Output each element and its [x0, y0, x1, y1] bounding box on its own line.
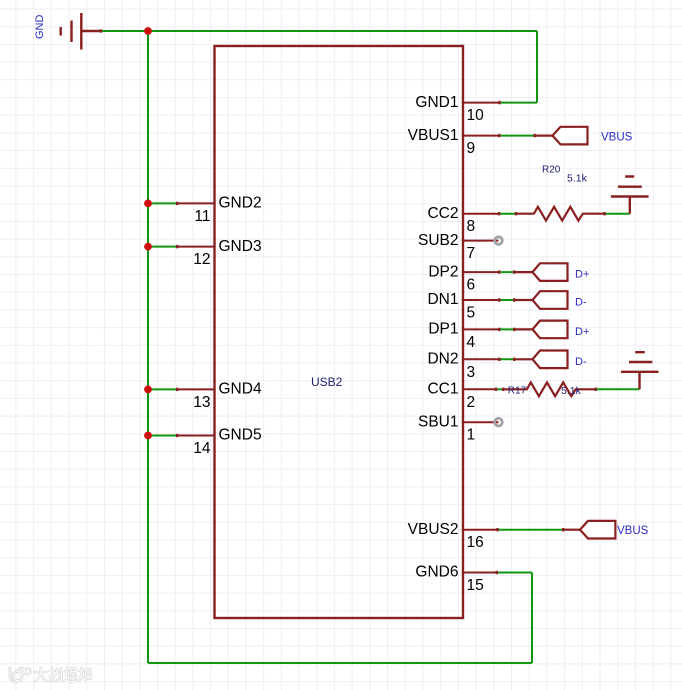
wire top horizontal (GND to corner) — [100, 30, 537, 32]
wire GND5 tap — [148, 435, 178, 437]
svg-text:VBUS: VBUS — [601, 131, 633, 143]
ground (earth, flipped) at R17 — [621, 352, 659, 389]
svg-text:5.1k: 5.1k — [567, 173, 588, 185]
no-connect marker pin 1 — [495, 418, 503, 426]
svg-text:13: 13 — [193, 394, 210, 411]
pin 12 GND3 — [178, 238, 262, 268]
pin 9 VBUS1 — [408, 127, 499, 157]
svg-text:3: 3 — [467, 364, 476, 381]
svg-text:5: 5 — [467, 305, 476, 322]
junction at top wire — [144, 27, 152, 35]
svg-text:GND4: GND4 — [219, 381, 262, 398]
wire CC1 to R17 — [495, 388, 504, 390]
pin 6 DP2 — [428, 263, 498, 293]
resistor R17 5.1k — [504, 382, 595, 397]
svg-text:SBU1: SBU1 — [418, 413, 459, 430]
svg-text:GND: GND — [34, 15, 46, 40]
pin 15 GND6 — [415, 564, 496, 594]
wire VBUS2 — [497, 529, 564, 531]
svg-text:R17: R17 — [508, 386, 527, 397]
wire top-right vertical down to GND1 — [536, 31, 538, 103]
svg-text:1: 1 — [467, 427, 476, 444]
svg-text:11: 11 — [194, 208, 210, 225]
svg-text:GND6: GND6 — [415, 564, 458, 581]
svg-text:5.1k: 5.1k — [561, 385, 582, 397]
junction GND5 — [144, 432, 152, 440]
wire DP1 — [499, 328, 516, 330]
svg-text:10: 10 — [467, 107, 485, 124]
pin 13 GND4 — [178, 381, 262, 411]
wire CC2 to R20 — [498, 213, 516, 215]
pin 7 SUB2 — [418, 232, 499, 262]
svg-text:9: 9 — [467, 140, 476, 157]
wire GND1 pin to corner — [499, 102, 538, 104]
svg-text:D-: D- — [575, 297, 587, 309]
pin 1 SBU1 — [418, 413, 499, 443]
wire bottom horizontal — [148, 662, 532, 664]
wire GND2 tap — [148, 202, 178, 204]
svg-text:SUB2: SUB2 — [418, 232, 459, 249]
svg-text:D+: D+ — [575, 269, 589, 281]
ground (earth, flipped) at R20 — [611, 177, 649, 214]
junction GND4 — [144, 386, 152, 394]
wire R20 to ground — [604, 213, 630, 215]
pin 10 GND1 — [415, 94, 498, 124]
pin 8 CC2 — [427, 205, 498, 235]
wire R17 to ground — [595, 388, 640, 390]
net flag D+ (pin 6) — [515, 263, 589, 281]
pin 14 GND5 — [178, 427, 262, 457]
ground symbol GND (power ground, top-left) — [61, 13, 100, 50]
net flag D- (pin 5) — [515, 291, 587, 309]
net flag VBUS (pin 9) — [536, 127, 633, 145]
svg-text:VBUS1: VBUS1 — [408, 127, 459, 144]
svg-text:GND5: GND5 — [219, 427, 262, 444]
wire left vertical bus — [147, 31, 149, 663]
svg-text:CC1: CC1 — [427, 381, 458, 398]
svg-text:12: 12 — [193, 251, 210, 268]
svg-text:GND3: GND3 — [219, 238, 262, 255]
no-connect marker pin 7 — [495, 237, 503, 245]
svg-text:6: 6 — [467, 276, 476, 293]
resistor R20 5.1k — [517, 165, 604, 221]
junction GND3 — [144, 243, 152, 251]
svg-text:16: 16 — [467, 534, 484, 551]
svg-text:4: 4 — [467, 334, 476, 351]
pin 16 VBUS2 — [408, 521, 497, 551]
svg-text:7: 7 — [467, 245, 476, 262]
svg-text:GND2: GND2 — [219, 195, 262, 212]
junction GND2 — [144, 200, 152, 208]
pin 4 DP1 — [428, 321, 498, 351]
svg-text:D-: D- — [575, 356, 587, 368]
svg-text:DP1: DP1 — [428, 321, 458, 338]
svg-text:GND1: GND1 — [415, 94, 458, 111]
pin 11 GND2 — [178, 195, 262, 225]
net flag D- (pin 3) — [515, 351, 587, 369]
wire GND4 tap — [148, 388, 178, 390]
svg-text:R20: R20 — [542, 165, 561, 176]
svg-text:14: 14 — [193, 440, 211, 457]
wire GND3 tap — [148, 246, 178, 248]
wire right bottom vertical (GND6 down) — [531, 573, 533, 664]
pin 3 DN2 — [427, 351, 498, 381]
svg-text:DN2: DN2 — [427, 351, 458, 368]
svg-text:CC2: CC2 — [427, 205, 458, 222]
svg-text:DN1: DN1 — [427, 291, 458, 308]
svg-text:VBUS: VBUS — [617, 525, 649, 537]
svg-text:DP2: DP2 — [428, 263, 458, 280]
wire VBUS1 — [499, 135, 536, 137]
pin 5 DN1 — [427, 291, 498, 321]
svg-text:15: 15 — [467, 577, 484, 594]
wire DN2 — [499, 358, 516, 360]
component USB2 body — [215, 46, 464, 618]
net flag VBUS (pin 16) — [564, 521, 649, 539]
pin 2 CC1 — [427, 381, 495, 411]
wire GND6 pin to corner — [496, 572, 532, 574]
svg-text:8: 8 — [467, 218, 476, 235]
svg-text:2: 2 — [467, 394, 476, 411]
svg-text:VBUS2: VBUS2 — [408, 521, 459, 538]
svg-text:D+: D+ — [575, 326, 589, 338]
wire DN1 — [499, 299, 516, 301]
net flag D+ (pin 4) — [515, 321, 589, 339]
wire DP2 — [499, 271, 516, 273]
svg-text:USB2: USB2 — [311, 375, 343, 389]
